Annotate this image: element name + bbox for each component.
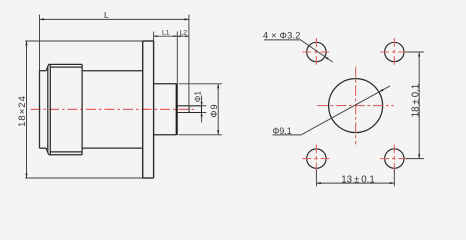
front barrel (dia 9) outline [154,84,177,135]
horizontal centerline of bore [317,105,394,107]
dimension 18x24 extension lines [25,41,143,178]
svg-text:L2: L2 [180,30,188,37]
svg-text:18 ± 0.1: 18 ± 0.1 [410,84,421,117]
dimension L1/L2 line with arrows [154,35,189,37]
centerline cross of bottom-left hole [302,145,330,173]
main body cylinder outline [82,71,143,148]
dimension 13 +/-0.1 extension lines [316,170,394,187]
centerline cross of bottom-right hole [380,145,408,173]
dimension 18x24 line with arrows [26,41,28,178]
svg-text:L1: L1 [162,30,170,37]
dimension dia1 line with arrows [201,96,203,123]
svg-text:L: L [104,10,109,20]
knurled ring section outline [46,64,82,154]
dimension dia9 line with arrows [217,84,219,135]
center bore circle dia 9.1 [329,79,383,133]
dimension 18 +/-0.1 extension lines [406,52,424,159]
vertical centerline of bore [355,67,357,145]
dimension L extension lines [40,15,189,106]
mounting flange plate outline [143,41,154,178]
center contact pin (dia 1) [177,106,202,113]
mounting hole top-left [307,42,326,61]
mounting hole top-right [385,42,404,61]
centerline axis of connector (left side view) [31,108,196,110]
barrel end face (thick line) [176,84,178,135]
dimension 13 +/-0.1 line with arrows [316,182,394,184]
dimension L line with arrows [40,18,189,20]
dimension L1/L2 extension lines [154,32,178,84]
svg-text:4 × Φ3.2: 4 × Φ3.2 [263,30,301,40]
svg-text:18×24: 18×24 [16,95,27,127]
coupling nut rear section outline [40,71,47,149]
mounting hole bottom-right [385,149,404,168]
centerline cross of top-left hole [302,38,330,66]
svg-text:13 ± 0.1: 13 ± 0.1 [341,174,374,185]
dimension dia1 extension lines [202,106,207,113]
dimension dia9 extension lines [179,84,223,135]
centerline cross of top-right hole [380,38,408,66]
mounting hole bottom-left [307,149,326,168]
svg-text:Φ9.1: Φ9.1 [272,126,291,136]
svg-text:Φ9: Φ9 [209,104,219,118]
svg-text:Φ1: Φ1 [192,91,202,103]
dimension 18 +/-0.1 line with arrows [418,52,420,159]
